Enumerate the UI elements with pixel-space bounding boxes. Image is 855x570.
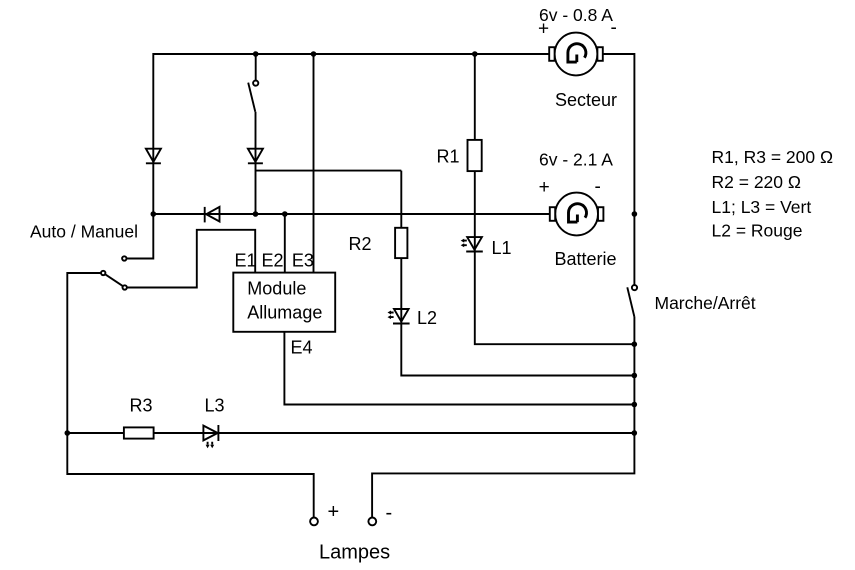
switch S2 blade xyxy=(627,287,634,316)
resistor R2 xyxy=(395,228,407,258)
wire E3 vertical xyxy=(313,53,315,273)
svg-text:E3: E3 xyxy=(292,251,314,271)
wire top bus xyxy=(153,53,550,55)
resistor R3 xyxy=(124,427,154,438)
wire middle vertical through D2 xyxy=(255,112,257,215)
svg-text:R3: R3 xyxy=(130,396,153,416)
svg-text:Module: Module xyxy=(247,279,306,299)
wire branch to R2 xyxy=(256,170,402,172)
svg-text:Marche/Arrêt: Marche/Arrêt xyxy=(655,293,756,313)
wire main horizontal xyxy=(153,213,550,215)
svg-text:L1: L1 xyxy=(492,238,512,258)
svg-text:6v - 2.1 A: 6v - 2.1 A xyxy=(539,150,613,170)
svg-text:-: - xyxy=(386,502,393,524)
svg-text:R1: R1 xyxy=(437,147,460,167)
diode D3 xyxy=(205,207,220,223)
node junction left bus / R3 line xyxy=(65,430,71,436)
wire A/M contact A branch xyxy=(127,214,154,259)
LED L2 xyxy=(388,309,410,324)
LED L3 xyxy=(203,425,218,448)
node junction main / D2 xyxy=(253,211,259,217)
module allumage box U3 xyxy=(233,273,335,332)
wire left vertical through D1 xyxy=(152,53,154,215)
svg-text:+: + xyxy=(539,177,550,198)
switch S1 blade xyxy=(248,83,255,112)
svg-text:+: + xyxy=(538,19,549,40)
wire E2 xyxy=(284,214,286,273)
switch S3 blade xyxy=(105,274,123,286)
node junction top bus / E3 branch xyxy=(311,51,317,57)
node junction bus / L2 line xyxy=(632,373,638,379)
switch S2 Marche/Arret contact xyxy=(632,285,637,290)
svg-text:L2 = Rouge: L2 = Rouge xyxy=(712,221,803,241)
switch S3 contact A xyxy=(122,256,126,260)
switch S3 pivot B xyxy=(101,271,105,275)
switch S1 contact xyxy=(253,81,258,86)
node junction battery / right bus xyxy=(632,211,638,217)
svg-text:R2: R2 xyxy=(349,234,372,254)
switch S3 contact C xyxy=(123,285,127,289)
svg-text:E1: E1 xyxy=(235,251,257,271)
diode D1 xyxy=(146,149,161,164)
node junction bus / R3 line xyxy=(632,430,638,436)
svg-text:-: - xyxy=(595,177,601,198)
svg-text:-: - xyxy=(611,18,617,39)
terminal Lampes plus xyxy=(310,518,318,526)
svg-text:Lampes: Lampes xyxy=(319,542,390,564)
svg-text:E2: E2 xyxy=(262,251,284,271)
wire R2/L2 vertical branch xyxy=(401,171,634,376)
svg-text:Batterie: Batterie xyxy=(555,249,617,269)
svg-text:Allumage: Allumage xyxy=(247,303,322,323)
node junction main / E2 xyxy=(282,211,288,217)
svg-text:R1, R3 = 200 Ω: R1, R3 = 200 Ω xyxy=(712,147,834,167)
diode D2 xyxy=(248,149,263,164)
node junction top bus / switch branch xyxy=(253,51,259,57)
LED L1 xyxy=(461,237,483,251)
svg-text:Secteur: Secteur xyxy=(555,90,617,110)
svg-text:L2: L2 xyxy=(417,308,437,328)
wire E4 xyxy=(284,332,634,405)
svg-text:R2 = 220 Ω: R2 = 220 Ω xyxy=(712,172,801,192)
node junction main / left branch xyxy=(151,211,157,217)
wire switch stem xyxy=(255,53,257,80)
svg-text:6v - 0.8 A: 6v - 0.8 A xyxy=(539,5,613,25)
terminal Lampes minus xyxy=(368,518,376,526)
svg-text:L3: L3 xyxy=(205,396,225,416)
resistor R1 xyxy=(468,140,482,171)
svg-text:E4: E4 xyxy=(291,338,313,358)
generator U2 Batterie xyxy=(550,193,604,236)
wire R3 L3 line xyxy=(67,432,634,434)
svg-text:Auto / Manuel: Auto / Manuel xyxy=(30,222,138,242)
node junction top bus / R1 branch xyxy=(472,51,478,57)
svg-text:L1; L3 = Vert: L1; L3 = Vert xyxy=(712,197,812,217)
wire contact C to E1 xyxy=(127,230,255,288)
wire pivot to left bus xyxy=(67,273,313,518)
wire right bus lower xyxy=(372,317,634,518)
wire secteur right to bus xyxy=(603,54,635,285)
node junction bus / E4 line xyxy=(632,402,638,408)
svg-text:+: + xyxy=(328,501,340,523)
node junction bus / L1 line xyxy=(632,341,638,347)
wire R1/L1 vertical branch xyxy=(475,54,635,344)
generator U1 Secteur xyxy=(549,33,603,76)
